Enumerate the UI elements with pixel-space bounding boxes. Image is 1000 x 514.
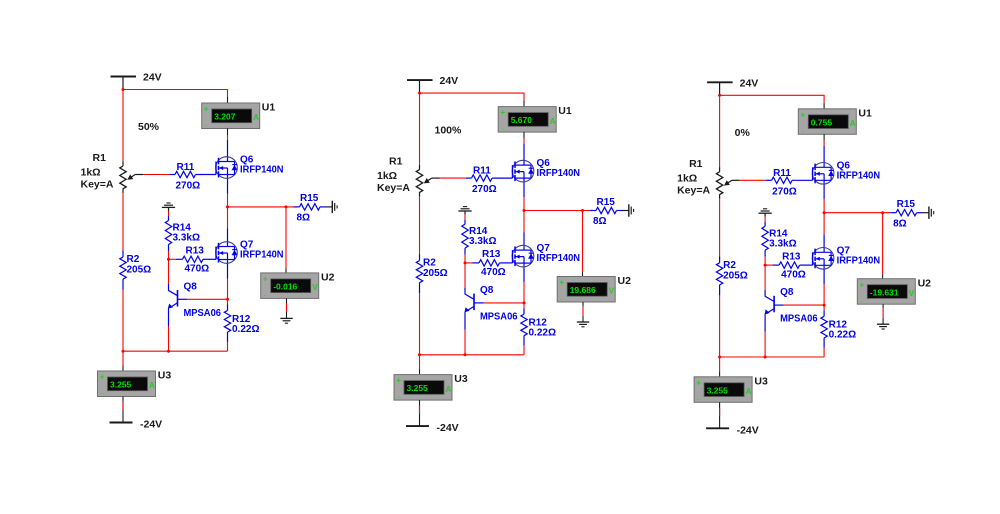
svg-text:R13: R13 [186, 246, 205, 257]
R14 value label 3.3kΩ (circuit 2) [469, 236, 496, 247]
U2 reference label (circuit 2) [618, 275, 632, 287]
U3 reference label (circuit 3) [754, 375, 768, 387]
svg-text:470Ω: 470Ω [781, 269, 806, 280]
-24V supply symbol (circuit 3) [706, 427, 729, 429]
svg-text:0.22Ω: 0.22Ω [529, 328, 556, 339]
svg-text:R15: R15 [300, 193, 319, 204]
R11 value label 270Ω (circuit 3) [772, 186, 797, 197]
svg-text:270Ω: 270Ω [772, 186, 797, 197]
svg-text:+: + [396, 376, 401, 385]
wire: R1 bottom to R2 top (circuit 1) [122, 193, 124, 251]
svg-text:MPSA06: MPSA06 [480, 311, 518, 322]
R1 value label 1kΩ (circuit 2) [377, 170, 397, 182]
ground symbol right of R15 (circuit 2) [622, 204, 634, 216]
svg-text:-0.016: -0.016 [273, 282, 297, 292]
R13 reference label (circuit 3) [782, 251, 801, 262]
svg-text:U2: U2 [321, 272, 335, 284]
node: R14/R13/Q8 bias junction (circuit 1) [167, 258, 170, 261]
wire: Q8 emitter to bottom rail (circuit 3) [764, 332, 766, 357]
svg-text:Key=A: Key=A [81, 179, 114, 191]
node: Q7 source / Q8 base / R12 junction (circuit 3) [823, 304, 826, 307]
svg-text:100%: 100% [435, 125, 463, 137]
R1 value label 1kΩ (circuit 3) [677, 172, 697, 184]
transistor Q6 IRFP140N N-MOSFET (circuit 2) [512, 144, 534, 198]
wire: output node to Q7 drain (circuit 3) [823, 213, 825, 235]
svg-text:50%: 50% [138, 121, 160, 133]
svg-text:0.22Ω: 0.22Ω [232, 324, 259, 335]
svg-text:V: V [609, 287, 615, 296]
node: speaker tap junction (circuit 1) [285, 205, 288, 208]
R1 reference label (circuit 3) [689, 158, 703, 170]
+24V label (circuit 1) [143, 72, 162, 84]
wire: Q6 source to output node (circuit 2) [523, 197, 525, 210]
R15 reference label (circuit 1) [300, 193, 319, 204]
node: Q7 source / Q8 base / R12 junction (circuit 1) [226, 298, 229, 301]
wire: bottom rail (circuit 2) [420, 354, 525, 356]
R13 value label 470Ω (circuit 2) [481, 267, 506, 278]
wire: Q8 emitter to bottom rail (circuit 2) [464, 330, 466, 355]
svg-text:R15: R15 [897, 199, 916, 210]
R12 reference label (circuit 3) [829, 320, 848, 331]
resistor R14 (circuit 2) [462, 220, 468, 255]
R15 reference label (circuit 3) [897, 199, 916, 210]
R14 value label 3.3kΩ (circuit 3) [769, 238, 796, 249]
-24V label (circuit 1) [140, 419, 162, 431]
node: speaker tap junction (circuit 2) [581, 209, 584, 212]
svg-text:-24V: -24V [140, 419, 162, 431]
ammeter U1 (circuit 1) [202, 103, 260, 130]
node: rail junction at Q8 emitter (circuit 2) [464, 353, 467, 356]
svg-text:R13: R13 [782, 251, 801, 262]
wire: +24V junction down to R1 top (circuit 1) [122, 90, 124, 162]
ground symbol right of R15 (circuit 3) [922, 207, 934, 219]
svg-text:V: V [909, 289, 915, 298]
R1 key label Key=A (circuit 2) [377, 182, 410, 194]
wire: +24V junction down to R1 top (circuit 2) [419, 93, 421, 165]
svg-text:3.255: 3.255 [707, 385, 729, 395]
svg-text:5.670: 5.670 [511, 115, 533, 125]
-24V supply symbol (circuit 2) [406, 425, 429, 427]
R15 reference label (circuit 2) [597, 197, 616, 208]
svg-text:Key=A: Key=A [677, 184, 710, 196]
wire: R14 bottom to bias node (circuit 3) [764, 257, 766, 265]
svg-text:+: + [559, 278, 564, 287]
node: rail junction left (circuit 3) [718, 356, 721, 359]
R12 value label 0.22Ω (circuit 1) [232, 324, 259, 335]
svg-text:U3: U3 [454, 373, 468, 385]
svg-text:470Ω: 470Ω [185, 264, 210, 275]
wire: output node to Q7 drain (circuit 2) [523, 211, 525, 233]
node: output junction at Q6 source (circuit 2) [523, 209, 526, 212]
R1 reference label (circuit 1) [93, 152, 107, 164]
wire: output node to Q7 drain (circuit 1) [227, 207, 229, 229]
resistor R13 (circuit 2) [465, 260, 513, 266]
svg-text:V: V [312, 283, 318, 292]
wire: +24V junction to ammeter U1 top (circuit 2) [420, 93, 525, 107]
svg-text:IRFP140N: IRFP140N [537, 168, 581, 179]
node: speaker tap junction (circuit 3) [881, 211, 884, 214]
Q7 value label IRFP140N (circuit 3) [837, 255, 881, 266]
U1 reference label (circuit 2) [558, 105, 572, 117]
ground symbol below U2 (circuit 1) [280, 318, 292, 323]
R12 value label 0.22Ω (circuit 3) [829, 330, 856, 341]
node: +24V rail junction (circuit 3) [718, 94, 721, 97]
wire: R12 bottom to bottom rail (circuit 2) [523, 346, 525, 355]
ammeter U3 (circuit 1) [98, 371, 156, 398]
-24V label (circuit 3) [737, 424, 759, 436]
node: rail junction at Q8 emitter (circuit 3) [764, 356, 767, 359]
svg-text:-24V: -24V [737, 424, 759, 436]
R2 reference label (circuit 3) [723, 260, 736, 271]
resistor R2 (circuit 1) [120, 251, 126, 290]
svg-text:R11: R11 [773, 168, 791, 179]
ground symbol above R14 (circuit 2) [458, 207, 471, 215]
svg-text:+: + [860, 280, 865, 289]
voltmeter U2 (circuit 3) [857, 279, 915, 306]
R14 reference label (circuit 1) [173, 223, 192, 234]
svg-text:U3: U3 [158, 370, 172, 382]
Q8 reference label (circuit 2) [480, 285, 494, 296]
R11 reference label (circuit 1) [177, 162, 195, 173]
R2 value label 205Ω (circuit 1) [127, 265, 152, 276]
Q6 value label IRFP140N (circuit 3) [837, 170, 881, 181]
svg-text:+: + [100, 373, 105, 382]
node: Q7 source / Q8 base / R12 junction (circuit 2) [523, 301, 526, 304]
R14 reference label (circuit 3) [769, 228, 788, 239]
svg-text:8Ω: 8Ω [593, 216, 607, 227]
svg-text:+: + [204, 105, 209, 114]
svg-text:IRFP140N: IRFP140N [240, 165, 284, 176]
svg-text:R2: R2 [127, 254, 140, 265]
svg-text:MPSA06: MPSA06 [184, 308, 222, 319]
wire: bias node to Q8 collector (circuit 1) [168, 259, 170, 284]
svg-text:IRFP140N: IRFP140N [240, 250, 284, 261]
node: R14/R13/Q8 bias junction (circuit 2) [464, 261, 467, 264]
transistor Q6 IRFP140N N-MOSFET (circuit 3) [812, 146, 834, 200]
R12 reference label (circuit 1) [232, 314, 251, 325]
U2 reference label (circuit 3) [918, 277, 932, 289]
wire: +24V junction to ammeter U1 top (circuit 1) [123, 90, 228, 104]
wire: R14 bottom to bias node (circuit 2) [464, 255, 466, 263]
svg-text:0.755: 0.755 [811, 117, 833, 127]
wire: bottom rail (circuit 3) [720, 356, 825, 358]
svg-text:R2: R2 [723, 260, 736, 271]
transistor Q8 MPSA06 NPN (circuit 1) [168, 284, 187, 326]
svg-text:IRFP140N: IRFP140N [837, 255, 881, 266]
resistor R12 (circuit 3) [821, 305, 827, 348]
svg-text:Q8: Q8 [184, 281, 198, 292]
Q7 reference label (circuit 3) [837, 245, 851, 256]
wire: bias node to Q8 collector (circuit 2) [464, 263, 466, 288]
svg-text:1kΩ: 1kΩ [677, 172, 697, 184]
ammeter U3 (circuit 3) [694, 377, 752, 404]
wire: U1 bottom to Q6 drain (circuit 2) [523, 132, 525, 144]
ground symbol above R14 (circuit 1) [162, 203, 175, 211]
svg-text:R1: R1 [689, 158, 703, 170]
resistor R13 (circuit 1) [169, 256, 217, 262]
potentiometer R1 1k (circuit 3) [716, 167, 739, 199]
U2 reference label (circuit 1) [321, 272, 335, 284]
pot percentage readout 100% (circuit 2) [435, 125, 463, 137]
wire: U1 bottom to Q6 drain (circuit 3) [823, 134, 825, 146]
R15 value label 8Ω (circuit 3) [893, 218, 907, 229]
wire: ground to R14 top (circuit 1) [168, 211, 170, 216]
ground symbol right of R15 (circuit 1) [326, 201, 338, 213]
R14 value label 3.3kΩ (circuit 1) [173, 233, 200, 244]
svg-text:U1: U1 [858, 107, 872, 119]
wire: rail to ammeter U3 top (circuit 1) [122, 351, 124, 371]
Q6 reference label (circuit 2) [537, 158, 551, 169]
R11 value label 270Ω (circuit 2) [472, 184, 497, 195]
svg-text:0%: 0% [735, 127, 751, 139]
R12 reference label (circuit 2) [529, 318, 548, 329]
svg-text:R15: R15 [597, 197, 616, 208]
ground symbol above R14 (circuit 3) [759, 209, 772, 217]
R13 value label 470Ω (circuit 1) [185, 264, 210, 275]
node: output junction at Q6 source (circuit 3) [823, 211, 826, 214]
ammeter U3 (circuit 2) [394, 375, 452, 402]
svg-text:8Ω: 8Ω [893, 218, 907, 229]
wire: bias node to Q8 collector (circuit 3) [764, 265, 766, 290]
R12 value label 0.22Ω (circuit 2) [529, 328, 556, 339]
potentiometer R1 1k (circuit 2) [416, 165, 439, 197]
svg-text:3.255: 3.255 [407, 383, 429, 393]
svg-text:270Ω: 270Ω [472, 184, 497, 195]
wire: U3 bottom to -24V supply (circuit 3) [719, 402, 721, 428]
svg-text:Q8: Q8 [480, 285, 494, 296]
svg-text:24V: 24V [740, 77, 759, 89]
R1 key label Key=A (circuit 3) [677, 184, 710, 196]
Q8 reference label (circuit 3) [780, 287, 794, 298]
R15 value label 8Ω (circuit 2) [593, 216, 607, 227]
R1 value label 1kΩ (circuit 1) [81, 167, 101, 179]
svg-text:8Ω: 8Ω [297, 213, 311, 224]
wire: +24V junction down to R1 top (circuit 3) [719, 95, 721, 167]
svg-text:1kΩ: 1kΩ [377, 170, 397, 182]
wire: U2 bottom to ground (circuit 3) [882, 304, 884, 324]
svg-text:+: + [801, 110, 806, 119]
svg-text:270Ω: 270Ω [176, 181, 201, 192]
svg-text:1kΩ: 1kΩ [81, 167, 101, 179]
wire: R1 wiper to R11 left (circuit 2) [440, 177, 467, 179]
svg-text:U2: U2 [618, 275, 632, 287]
R11 reference label (circuit 2) [473, 166, 491, 177]
wire: R12 bottom to bottom rail (circuit 1) [227, 342, 229, 351]
+24V label (circuit 3) [740, 77, 759, 89]
transistor Q7 IRFP140N N-MOSFET (circuit 2) [512, 232, 534, 282]
wire: Q6 source to output node (circuit 3) [823, 199, 825, 212]
transistor Q8 MPSA06 NPN (circuit 2) [464, 288, 483, 330]
wire: R14 bottom to bias node (circuit 1) [168, 251, 170, 259]
resistor R14 (circuit 1) [165, 216, 171, 251]
wire: ground to R14 top (circuit 3) [764, 217, 766, 222]
ammeter U1 (circuit 3) [798, 109, 856, 136]
wire: R2 bottom to bottom rail (circuit 3) [719, 295, 721, 357]
svg-text:R1: R1 [93, 152, 107, 164]
svg-text:R1: R1 [389, 156, 403, 168]
Q6 reference label (circuit 1) [240, 155, 254, 166]
+24V supply symbol (circuit 1) [111, 77, 137, 90]
Q8 value label MPSA06 (circuit 1) [184, 308, 222, 319]
voltmeter U2 (circuit 1) [261, 273, 319, 300]
resistor R2 (circuit 2) [416, 254, 422, 293]
R15 value label 8Ω (circuit 1) [297, 213, 311, 224]
node: R14/R13/Q8 bias junction (circuit 3) [764, 264, 767, 267]
R13 reference label (circuit 1) [186, 246, 205, 257]
svg-text:Q8: Q8 [780, 287, 794, 298]
svg-text:24V: 24V [143, 72, 162, 84]
wire: Q8 base to source node (circuit 2) [484, 302, 525, 304]
svg-text:Key=A: Key=A [377, 182, 410, 194]
resistor R15 (circuit 3) [890, 210, 922, 216]
wire: R1 wiper to R11 left (circuit 3) [740, 179, 767, 181]
svg-text:R13: R13 [482, 249, 501, 260]
node: rail junction left (circuit 2) [418, 353, 421, 356]
svg-text:U1: U1 [262, 102, 276, 114]
svg-text:3.3kΩ: 3.3kΩ [769, 238, 796, 249]
pot percentage readout 50% (circuit 1) [138, 121, 160, 133]
wire: Q7 source to source node (circuit 1) [227, 279, 229, 300]
svg-text:A: A [550, 117, 556, 126]
wire: rail to ammeter U3 top (circuit 3) [719, 357, 721, 377]
svg-text:IRFP140N: IRFP140N [537, 253, 581, 264]
wire: U2 bottom to ground (circuit 1) [286, 298, 288, 318]
svg-text:+: + [696, 378, 701, 387]
wire: U3 bottom to -24V supply (circuit 2) [419, 400, 421, 426]
svg-text:+: + [263, 275, 268, 284]
svg-text:3.207: 3.207 [214, 112, 236, 122]
wire: +24V junction to ammeter U1 top (circuit 3) [720, 95, 825, 109]
R13 value label 470Ω (circuit 3) [781, 269, 806, 280]
resistor R14 (circuit 3) [762, 222, 768, 257]
resistor R15 (circuit 1) [294, 204, 326, 210]
Q7 value label IRFP140N (circuit 1) [240, 250, 284, 261]
wire: U1 bottom to Q6 drain (circuit 1) [227, 128, 229, 140]
resistor R11 (circuit 1) [170, 171, 217, 177]
svg-text:205Ω: 205Ω [423, 268, 448, 279]
wire: tap junction down to voltmeter U2 (circuit 1) [285, 207, 287, 273]
svg-text:470Ω: 470Ω [481, 267, 506, 278]
wire: Q8 emitter to bottom rail (circuit 1) [168, 326, 170, 351]
potentiometer R1 1k (circuit 1) [120, 161, 143, 193]
+24V supply symbol (circuit 3) [707, 82, 733, 95]
svg-text:205Ω: 205Ω [127, 265, 152, 276]
resistor R2 (circuit 3) [716, 256, 722, 295]
Q7 value label IRFP140N (circuit 2) [537, 253, 581, 264]
U1 reference label (circuit 1) [262, 102, 276, 114]
wire: Q6 source to output node (circuit 1) [227, 194, 229, 207]
node: +24V rail junction (circuit 2) [418, 92, 421, 95]
+24V supply symbol (circuit 2) [407, 80, 433, 93]
Q8 value label MPSA06 (circuit 3) [780, 314, 818, 325]
U3 reference label (circuit 1) [158, 370, 172, 382]
svg-text:3.255: 3.255 [110, 380, 132, 390]
wire: tap junction down to voltmeter U2 (circuit 2) [582, 211, 584, 277]
svg-text:A: A [149, 381, 155, 390]
svg-text:A: A [850, 119, 856, 128]
svg-text:24V: 24V [440, 75, 459, 87]
Q7 reference label (circuit 2) [537, 243, 551, 254]
Q6 value label IRFP140N (circuit 2) [537, 168, 581, 179]
wire: Q8 base to source node (circuit 3) [784, 304, 825, 306]
U1 reference label (circuit 3) [858, 107, 872, 119]
svg-text:R2: R2 [423, 258, 436, 269]
svg-text:U2: U2 [918, 277, 932, 289]
node: +24V rail junction (circuit 1) [122, 88, 125, 91]
svg-text:U1: U1 [558, 105, 572, 117]
wire: R1 bottom to R2 top (circuit 3) [719, 199, 721, 256]
wire: rail to ammeter U3 top (circuit 2) [419, 355, 421, 375]
svg-text:U3: U3 [754, 375, 768, 387]
R14 reference label (circuit 2) [469, 226, 488, 237]
wire: output node to R15 (circuit 3) [824, 212, 890, 214]
R1 reference label (circuit 2) [389, 156, 403, 168]
svg-text:+: + [500, 108, 505, 117]
svg-text:205Ω: 205Ω [723, 270, 748, 281]
svg-text:MPSA06: MPSA06 [780, 314, 818, 325]
svg-text:IRFP140N: IRFP140N [837, 170, 881, 181]
R13 reference label (circuit 2) [482, 249, 501, 260]
svg-text:3.3kΩ: 3.3kΩ [469, 236, 496, 247]
Q8 value label MPSA06 (circuit 2) [480, 311, 518, 322]
transistor Q7 IRFP140N N-MOSFET (circuit 3) [812, 234, 834, 284]
svg-text:0.22Ω: 0.22Ω [829, 330, 856, 341]
node: rail junction left (circuit 1) [122, 350, 125, 353]
wire: ground to R14 top (circuit 2) [464, 215, 466, 220]
R1 key label Key=A (circuit 1) [81, 179, 114, 191]
Q7 reference label (circuit 1) [240, 240, 254, 251]
wire: tap junction down to voltmeter U2 (circuit 3) [882, 213, 884, 279]
svg-text:-24V: -24V [437, 422, 459, 434]
wire: R2 bottom to bottom rail (circuit 2) [419, 293, 421, 355]
wire: U2 bottom to ground (circuit 2) [582, 302, 584, 322]
svg-text:19.686: 19.686 [570, 285, 596, 295]
resistor R11 (circuit 3) [766, 177, 813, 183]
wire: Q8 base to source node (circuit 1) [187, 298, 228, 300]
resistor R15 (circuit 2) [590, 207, 622, 213]
pot percentage readout 0% (circuit 3) [735, 127, 751, 139]
resistor R11 (circuit 2) [466, 175, 513, 181]
Q6 value label IRFP140N (circuit 1) [240, 165, 284, 176]
resistor R12 (circuit 2) [521, 303, 527, 346]
wire: bottom rail (circuit 1) [123, 350, 228, 352]
R11 reference label (circuit 3) [773, 168, 791, 179]
svg-text:A: A [253, 113, 259, 122]
R2 reference label (circuit 1) [127, 254, 140, 265]
R2 reference label (circuit 2) [423, 258, 436, 269]
resistor R12 (circuit 1) [224, 299, 230, 342]
transistor Q7 IRFP140N N-MOSFET (circuit 1) [216, 229, 238, 279]
Q6 reference label (circuit 3) [837, 160, 851, 171]
ground symbol below U2 (circuit 3) [877, 324, 889, 329]
wire: R1 wiper to R11 left (circuit 1) [143, 174, 170, 176]
transistor Q6 IRFP140N N-MOSFET (circuit 1) [216, 140, 238, 194]
ground symbol below U2 (circuit 2) [577, 322, 589, 327]
wire: output node to R15 (circuit 2) [524, 210, 590, 212]
R2 value label 205Ω (circuit 2) [423, 268, 448, 279]
svg-text:A: A [446, 385, 452, 394]
wire: output node to R15 (circuit 1) [228, 206, 294, 208]
svg-text:3.3kΩ: 3.3kΩ [173, 233, 200, 244]
wire: U3 bottom to -24V supply (circuit 1) [122, 397, 124, 423]
wire: R2 bottom to bottom rail (circuit 1) [122, 290, 124, 352]
wire: Q7 source to source node (circuit 3) [823, 284, 825, 305]
voltmeter U2 (circuit 2) [557, 277, 615, 304]
svg-text:R11: R11 [473, 166, 491, 177]
wire: R12 bottom to bottom rail (circuit 3) [823, 348, 825, 357]
node: output junction at Q6 source (circuit 1) [226, 205, 229, 208]
ammeter U1 (circuit 2) [498, 107, 556, 134]
